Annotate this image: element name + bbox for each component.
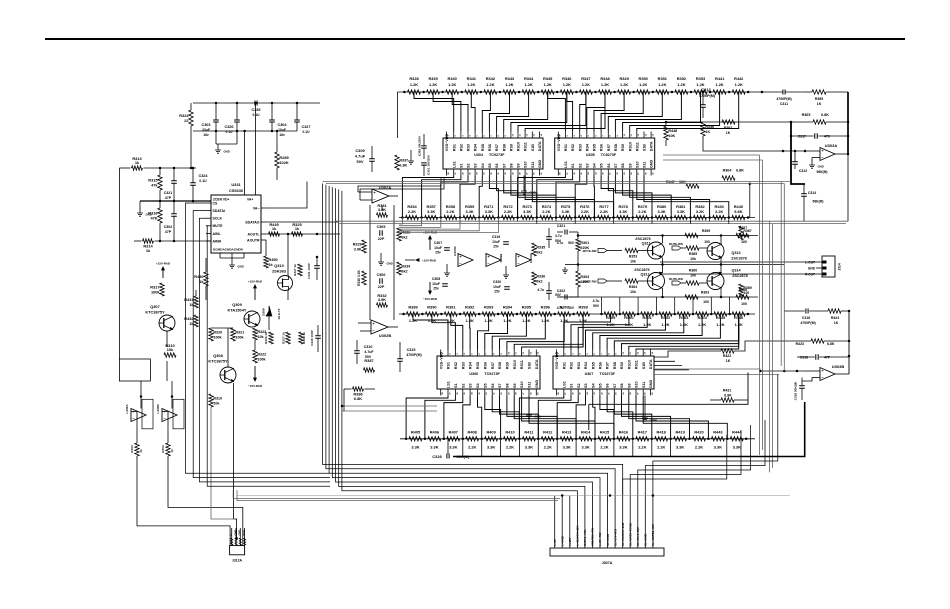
wire IC2 right rails — [663, 155, 763, 160]
svg-text:2.2K: 2.2K — [600, 209, 608, 214]
svg-text:S3: S3 — [585, 163, 589, 168]
svg-text:9: 9 — [505, 135, 507, 137]
capacitor C351 — [421, 154, 430, 176]
svg-text:1.2K: 1.2K — [735, 82, 743, 87]
connector J312A — [229, 528, 246, 563]
svg-text:S6: S6 — [606, 383, 610, 388]
svg-text:S11: S11 — [528, 382, 532, 388]
resistor R374 2.2K — [536, 204, 553, 220]
svg-text:4700P(M): 4700P(M) — [406, 353, 421, 357]
svg-text:R329: R329 — [353, 243, 362, 247]
resistor R446 1.2K — [728, 312, 745, 327]
svg-text:14: 14 — [537, 351, 540, 354]
svg-text:C314: C314 — [808, 191, 816, 195]
wire right rail 781 — [781, 182, 784, 372]
opamp U303Ca — [453, 245, 473, 266]
svg-text:S6: S6 — [607, 163, 611, 168]
svg-text:4.7u: 4.7u — [593, 299, 600, 303]
transistor Q308 KTC3875Y — [208, 353, 236, 383]
svg-text:S4: S4 — [591, 383, 595, 388]
svg-text:1k: 1k — [146, 248, 151, 253]
svg-text:27: 27 — [638, 172, 640, 175]
svg-text:32: 32 — [491, 172, 493, 175]
wire center bus feeders — [323, 184, 623, 496]
svg-text:S11: S11 — [531, 162, 535, 168]
svg-text:0.1U: 0.1U — [226, 130, 234, 134]
wire R386 link — [343, 389, 345, 411]
svg-text:C303: C303 — [201, 123, 210, 127]
svg-text:R393: R393 — [484, 304, 494, 309]
svg-text:26: 26 — [534, 172, 536, 175]
svg-text:C305: C305 — [377, 225, 386, 229]
svg-text:R390: R390 — [427, 304, 436, 309]
resistor R289 102K — [275, 131, 290, 180]
resistor R326 1k — [264, 332, 273, 344]
svg-text:14: 14 — [540, 133, 543, 136]
resistor R336b 6k2 — [532, 272, 545, 285]
svg-text:S4: S4 — [481, 163, 485, 168]
svg-text:RS5: RS5 — [476, 362, 480, 369]
connector J307A pins — [553, 496, 655, 549]
svg-text:R327 1k: R327 1k — [293, 264, 297, 276]
svg-text:Q311: Q311 — [642, 242, 651, 246]
resistor R398 1.2K — [572, 304, 589, 323]
svg-text:GND: GND — [224, 150, 230, 154]
svg-text:+15V-RhD: +15V-RhD — [156, 262, 171, 266]
svg-text:30: 30 — [505, 172, 507, 175]
resistor R380 3.3K — [651, 204, 668, 220]
svg-text:3: 3 — [574, 135, 576, 137]
svg-text:−15V-RhD: −15V-RhD — [248, 384, 263, 388]
svg-text:1K: 1K — [834, 321, 839, 325]
svg-text:1.2K: 1.2K — [429, 82, 437, 87]
svg-text:3.3K: 3.3K — [563, 445, 571, 450]
resistor R364b 10k — [625, 279, 648, 294]
svg-text:1.2K: 1.2K — [467, 82, 475, 87]
svg-text:27: 27 — [637, 392, 639, 395]
svg-text:RS8: RS8 — [498, 362, 502, 369]
svg-text:10k: 10k — [630, 260, 636, 264]
resistor R415 2.2K — [594, 429, 611, 449]
resistor R378 3.3K — [612, 204, 629, 220]
svg-text:R320: R320 — [213, 331, 222, 335]
svg-text:R341: R341 — [467, 76, 477, 81]
svg-text:RS3: RS3 — [461, 362, 465, 369]
wire bold bottom rail — [453, 402, 805, 457]
svg-text:RS8: RS8 — [613, 362, 617, 369]
resistor R332 3.9K — [377, 293, 388, 307]
svg-text:26: 26 — [530, 392, 532, 395]
resistor R409 3.3K — [480, 429, 497, 449]
capacitor C309 4.7uF — [355, 146, 375, 172]
svg-text:C302: C302 — [164, 225, 173, 229]
resistor R414 3.3K — [575, 429, 592, 449]
resistor R444 3.3K — [726, 429, 743, 449]
svg-text:DATA1−VOL: DATA1−VOL — [583, 529, 587, 546]
svg-text:13: 13 — [534, 133, 536, 136]
svg-text:RS4: RS4 — [584, 361, 588, 369]
svg-text:RS6: RS6 — [599, 362, 603, 369]
svg-text:R408: R408 — [468, 429, 478, 434]
svg-text:S10: S10 — [520, 381, 524, 388]
resistor R350 1.2K — [632, 76, 649, 94]
svg-text:3.3K: 3.3K — [449, 445, 457, 450]
svg-text:RS1: RS1 — [564, 144, 568, 151]
svg-text:25v: 25v — [493, 245, 499, 249]
svg-text:R336: R336 — [705, 125, 714, 129]
svg-text:C431 100P: C431 100P — [307, 263, 311, 278]
svg-text:26: 26 — [645, 392, 647, 395]
svg-text:37: 37 — [567, 172, 569, 175]
svg-text:C320: C320 — [493, 280, 501, 284]
svg-text:2.2K: 2.2K — [695, 445, 703, 450]
svg-text:R346: R346 — [562, 76, 572, 81]
resistor R361 220K — [576, 232, 590, 251]
svg-text:10k: 10k — [630, 290, 636, 294]
svg-text:R361: R361 — [580, 241, 589, 245]
svg-text:RS7: RS7 — [495, 144, 499, 151]
svg-text:GND: GND — [538, 159, 542, 168]
svg-text:S10: S10 — [524, 161, 528, 168]
capacitor C322 4.7u — [557, 289, 578, 310]
svg-text:RS3: RS3 — [577, 362, 581, 369]
svg-text:S7: S7 — [614, 163, 618, 168]
resistor R431b 6.8K — [710, 389, 748, 403]
svg-text:S8: S8 — [620, 383, 624, 388]
svg-text:30: 30 — [617, 172, 619, 175]
svg-text:1k: 1k — [272, 226, 277, 231]
svg-text:R322: R322 — [257, 353, 266, 357]
svg-text:U307: U307 — [585, 372, 594, 376]
svg-text:SDATAO: SDATAO — [245, 220, 260, 224]
svg-text:2SC2878: 2SC2878 — [731, 257, 746, 261]
wire long rail 221 — [335, 221, 848, 223]
resistor R358 2.2K — [440, 204, 457, 220]
svg-text:J314: J314 — [838, 263, 842, 271]
svg-text:R385: R385 — [815, 97, 823, 101]
svg-text:DGMDAGNDAGNDR: DGMDAGNDAGNDR — [213, 248, 244, 252]
svg-text:2.2K: 2.2K — [581, 209, 589, 214]
svg-text:RLS-73: RLS-73 — [277, 308, 281, 319]
svg-text:RS6: RS6 — [483, 362, 487, 369]
svg-text:14: 14 — [652, 133, 655, 136]
svg-text:50V: 50V — [568, 241, 575, 245]
svg-text:AOUTL: AOUTL — [247, 232, 260, 236]
svg-text:10uF: 10uF — [432, 282, 440, 286]
svg-text:RS10: RS10 — [513, 360, 517, 369]
svg-text:ZCEN VD+: ZCEN VD+ — [213, 198, 229, 202]
svg-text:S1B: S1B — [531, 144, 535, 152]
svg-text:R326 1k: R326 1k — [264, 332, 268, 344]
resistor R357 3.3K — [420, 204, 437, 220]
svg-text:1K: 1K — [705, 130, 710, 134]
svg-text:28: 28 — [516, 392, 518, 395]
svg-text:L−5V: L−5V — [553, 539, 557, 546]
svg-text:1k: 1k — [135, 160, 140, 165]
svg-text:R330 3.3K: R330 3.3K — [357, 270, 361, 286]
svg-text:S5: S5 — [483, 383, 487, 388]
capacitor C303 33uF — [201, 103, 218, 144]
junction dot row3 end — [747, 313, 750, 316]
svg-text:R339: R339 — [428, 76, 438, 81]
svg-text:RS11: RS11 — [635, 142, 639, 151]
svg-text:3.3K: 3.3K — [714, 445, 722, 450]
resistor R353 10k — [625, 248, 648, 263]
svg-text:S2: S2 — [578, 163, 582, 168]
svg-text:RS1: RS1 — [562, 362, 566, 369]
resistor R430 2.2K — [708, 204, 725, 220]
svg-text:AOUTR: AOUTR — [247, 238, 260, 242]
svg-text:3.3K: 3.3K — [677, 209, 685, 214]
svg-text:25: 25 — [541, 172, 543, 175]
svg-text:RS6: RS6 — [488, 144, 492, 151]
wire feedback 122 — [665, 121, 793, 124]
power +15V arrow top — [423, 231, 438, 251]
svg-text:D309: D309 — [262, 308, 266, 316]
resistor R341 1.2K — [461, 76, 478, 94]
svg-text:R350: R350 — [639, 76, 648, 81]
power -15V-RhD — [248, 366, 263, 388]
wire L330A chain — [131, 412, 230, 546]
svg-text:C317: C317 — [798, 135, 806, 139]
ground U307 — [642, 396, 657, 422]
resistor R372 2.2K — [497, 204, 514, 220]
wire bundle U305 to row2 — [518, 176, 729, 218]
resistor R385 1K — [806, 90, 848, 106]
svg-text:R328 1k: R328 1k — [302, 332, 306, 344]
power +15V-RhD Q309 — [248, 280, 263, 301]
svg-text:S11: S11 — [642, 382, 646, 388]
transistor Q309 KTA1504Y — [228, 302, 260, 327]
wire bundle row3 to U306 — [413, 314, 583, 350]
svg-text:R417: R417 — [638, 429, 647, 434]
svg-text:R442: R442 — [734, 76, 744, 81]
svg-text:R336: R336 — [536, 275, 545, 279]
wire IC4 right rails — [654, 369, 779, 375]
svg-text:4.7u: 4.7u — [537, 288, 544, 292]
svg-text:33: 33 — [479, 392, 481, 395]
svg-text:U331: U331 — [231, 182, 241, 187]
resistor R422 1K — [700, 341, 797, 363]
resistor R363b 220K — [576, 251, 590, 297]
ground topleft caps — [215, 144, 237, 154]
mute flag Q311 — [583, 249, 622, 253]
transistor Q314 2SC2878 — [707, 265, 748, 298]
svg-text:KTC3875Y: KTC3875Y — [145, 310, 165, 315]
svg-text:47K: 47K — [150, 216, 157, 221]
svg-text:CS5330: CS5330 — [229, 188, 243, 193]
svg-text:C393 56U/20V: C393 56U/20V — [418, 135, 422, 156]
svg-text:3.3K: 3.3K — [430, 445, 438, 450]
svg-text:16v: 16v — [203, 133, 209, 137]
capacitor C316 4700P — [784, 309, 828, 326]
svg-text:6.8K: 6.8K — [821, 113, 829, 117]
svg-text:2.2K: 2.2K — [657, 445, 665, 450]
svg-text:VA−: VA− — [253, 206, 260, 210]
svg-text:R411: R411 — [524, 429, 534, 434]
svg-text:47P: 47P — [165, 230, 172, 234]
resistor R404 1.2K — [692, 312, 709, 327]
svg-text:R422: R422 — [723, 354, 731, 358]
capacitor C310 4.7uF — [354, 340, 374, 364]
svg-text:UL−MUTE1−RW: UL−MUTE1−RW — [651, 524, 655, 546]
svg-text:C311: C311 — [780, 102, 788, 106]
resistor R392 1.2K — [459, 304, 476, 323]
wire bundle U307 to row5 — [519, 396, 727, 439]
svg-text:3: 3 — [462, 135, 464, 137]
resistor R381 3.3K — [670, 204, 687, 220]
svg-text:3: 3 — [457, 353, 459, 355]
ground filter b — [503, 266, 509, 278]
junction dot row5 end — [745, 438, 748, 441]
svg-text:S5: S5 — [600, 163, 604, 168]
svg-text:100k: 100k — [213, 336, 222, 340]
svg-text:28: 28 — [519, 172, 521, 175]
svg-text:C321: C321 — [164, 191, 173, 195]
IC U305 TC9273F — [555, 132, 655, 176]
svg-text:29: 29 — [512, 172, 514, 175]
svg-text:4.7u: 4.7u — [557, 306, 564, 310]
svg-text:RS10: RS10 — [517, 142, 521, 151]
svg-text:4: 4 — [580, 135, 583, 137]
svg-text:5: 5 — [472, 353, 474, 355]
svg-text:S3: S3 — [474, 163, 478, 168]
resistor R391 1.2K — [440, 304, 457, 323]
svg-text:R340: R340 — [448, 76, 457, 81]
capacitor C311 4700P — [762, 90, 806, 107]
svg-text:S9: S9 — [517, 163, 521, 168]
svg-text:100: 100 — [743, 234, 749, 238]
svg-text:100: 100 — [704, 240, 710, 244]
wire bundle row1 to U304 — [414, 92, 605, 132]
svg-text:Q310: Q310 — [274, 263, 284, 268]
svg-text:0.1U: 0.1U — [253, 113, 261, 117]
resistor R387 — [364, 358, 375, 372]
svg-text:S9: S9 — [627, 383, 631, 388]
svg-text:+15V-RhD: +15V-RhD — [422, 259, 437, 263]
capacitor C324 0.1U — [190, 167, 208, 201]
svg-text:100: 100 — [741, 302, 747, 306]
svg-text:GND: GND — [650, 159, 654, 168]
resistor R368 100 — [736, 288, 749, 306]
svg-text:Q308: Q308 — [213, 353, 223, 358]
resistor R389 1.2K — [402, 304, 419, 323]
resistor R373 3.3K — [516, 204, 533, 220]
svg-text:9: 9 — [501, 353, 503, 355]
svg-text:UL−GND: UL−GND — [644, 534, 648, 546]
svg-text:4: 4 — [468, 135, 471, 137]
resistor R371 3.3K — [478, 204, 495, 220]
svg-text:10k: 10k — [167, 347, 174, 352]
wire U307 right stubs — [654, 351, 700, 370]
resistor R441 1.2K — [709, 76, 726, 94]
svg-text:R349: R349 — [619, 76, 629, 81]
resistor R322 100k — [253, 340, 267, 363]
svg-text:RS2: RS2 — [571, 144, 575, 151]
svg-text:RS5: RS5 — [591, 362, 595, 369]
wire right rail 769 — [769, 221, 772, 472]
resistor R336 1K — [701, 122, 714, 146]
svg-text:13: 13 — [530, 351, 532, 354]
svg-text:2SC2876: 2SC2876 — [635, 237, 650, 241]
svg-text:CS: CS — [213, 201, 219, 205]
svg-text:S3: S3 — [584, 383, 588, 388]
resistor R349 1.2K — [613, 76, 630, 94]
svg-text:Q307: Q307 — [150, 304, 160, 309]
svg-text:U305: U305 — [586, 153, 595, 157]
wire row5 rail — [400, 438, 755, 440]
resistor R348 1.2K — [594, 76, 611, 94]
capacitor C312 — [792, 151, 807, 173]
svg-text:RS8: RS8 — [614, 144, 618, 151]
svg-text:R441: R441 — [715, 76, 725, 81]
resistor R379 2.2K — [632, 204, 649, 220]
svg-text:3.3K: 3.3K — [485, 209, 493, 214]
svg-text:R364: R364 — [723, 169, 733, 173]
svg-text:TC9273F: TC9273F — [601, 153, 617, 157]
svg-text:6k2: 6k2 — [536, 251, 542, 255]
svg-text:RS3: RS3 — [467, 144, 471, 151]
svg-text:C351 16V/25V: C351 16V/25V — [427, 154, 431, 175]
svg-text:−15V-RhD: −15V-RhD — [423, 297, 438, 301]
svg-text:29: 29 — [624, 172, 626, 175]
svg-text:102K: 102K — [279, 160, 288, 165]
svg-text:1.2K: 1.2K — [601, 82, 609, 87]
svg-text:MUTE: MUTE — [213, 224, 224, 228]
resistor R442 1.2K — [728, 76, 745, 94]
svg-text:33: 33 — [594, 392, 596, 395]
svg-text:9: 9 — [617, 135, 619, 137]
svg-text:1k: 1k — [295, 226, 300, 231]
svg-text:GND: GND — [818, 165, 824, 169]
svg-text:LS1: LS1 — [452, 161, 456, 168]
svg-text:DATA: DATA — [650, 141, 654, 151]
svg-text:R303: R303 — [130, 445, 134, 453]
svg-text:1.2K: 1.2K — [582, 82, 590, 87]
wire drop 183 — [749, 183, 752, 218]
svg-text:32: 32 — [601, 392, 603, 395]
junction dot row2 end — [747, 216, 750, 219]
svg-text:GND: GND — [649, 379, 653, 388]
resistor R386 6.8K — [344, 387, 375, 401]
resistor R303 1k — [130, 443, 143, 456]
svg-text:RS2: RS2 — [454, 362, 458, 369]
wire row5 junction drops — [463, 439, 671, 457]
svg-text:4.7u: 4.7u — [557, 241, 564, 245]
resistor R346 1.2K — [556, 76, 573, 94]
svg-text:8: 8 — [494, 353, 496, 355]
capacitor C329 56K — [794, 378, 813, 401]
svg-text:R409: R409 — [486, 429, 496, 434]
svg-text:UL−5T+1−RW: UL−5T+1−RW — [636, 527, 640, 546]
resistor R443 3.3K — [707, 429, 724, 449]
svg-text:10k: 10k — [213, 402, 219, 406]
svg-text:C319: C319 — [492, 235, 500, 239]
svg-text:S1: S1 — [571, 163, 575, 168]
svg-text:28: 28 — [630, 392, 632, 395]
svg-text:3.3K: 3.3K — [525, 445, 533, 450]
svg-text:3.3K: 3.3K — [427, 209, 435, 214]
svg-text:R360: R360 — [689, 269, 697, 273]
svg-text:S1B: S1B — [643, 144, 647, 152]
resistor R417 2.2K — [632, 429, 649, 449]
svg-text:56K(M): 56K(M) — [817, 170, 828, 174]
resistor R403 1.2K — [673, 312, 690, 327]
resistor R304 1k — [161, 443, 174, 456]
svg-text:1K: 1K — [817, 102, 822, 106]
svg-text:1K: 1K — [726, 359, 731, 363]
svg-text:AINL: AINL — [213, 232, 222, 236]
